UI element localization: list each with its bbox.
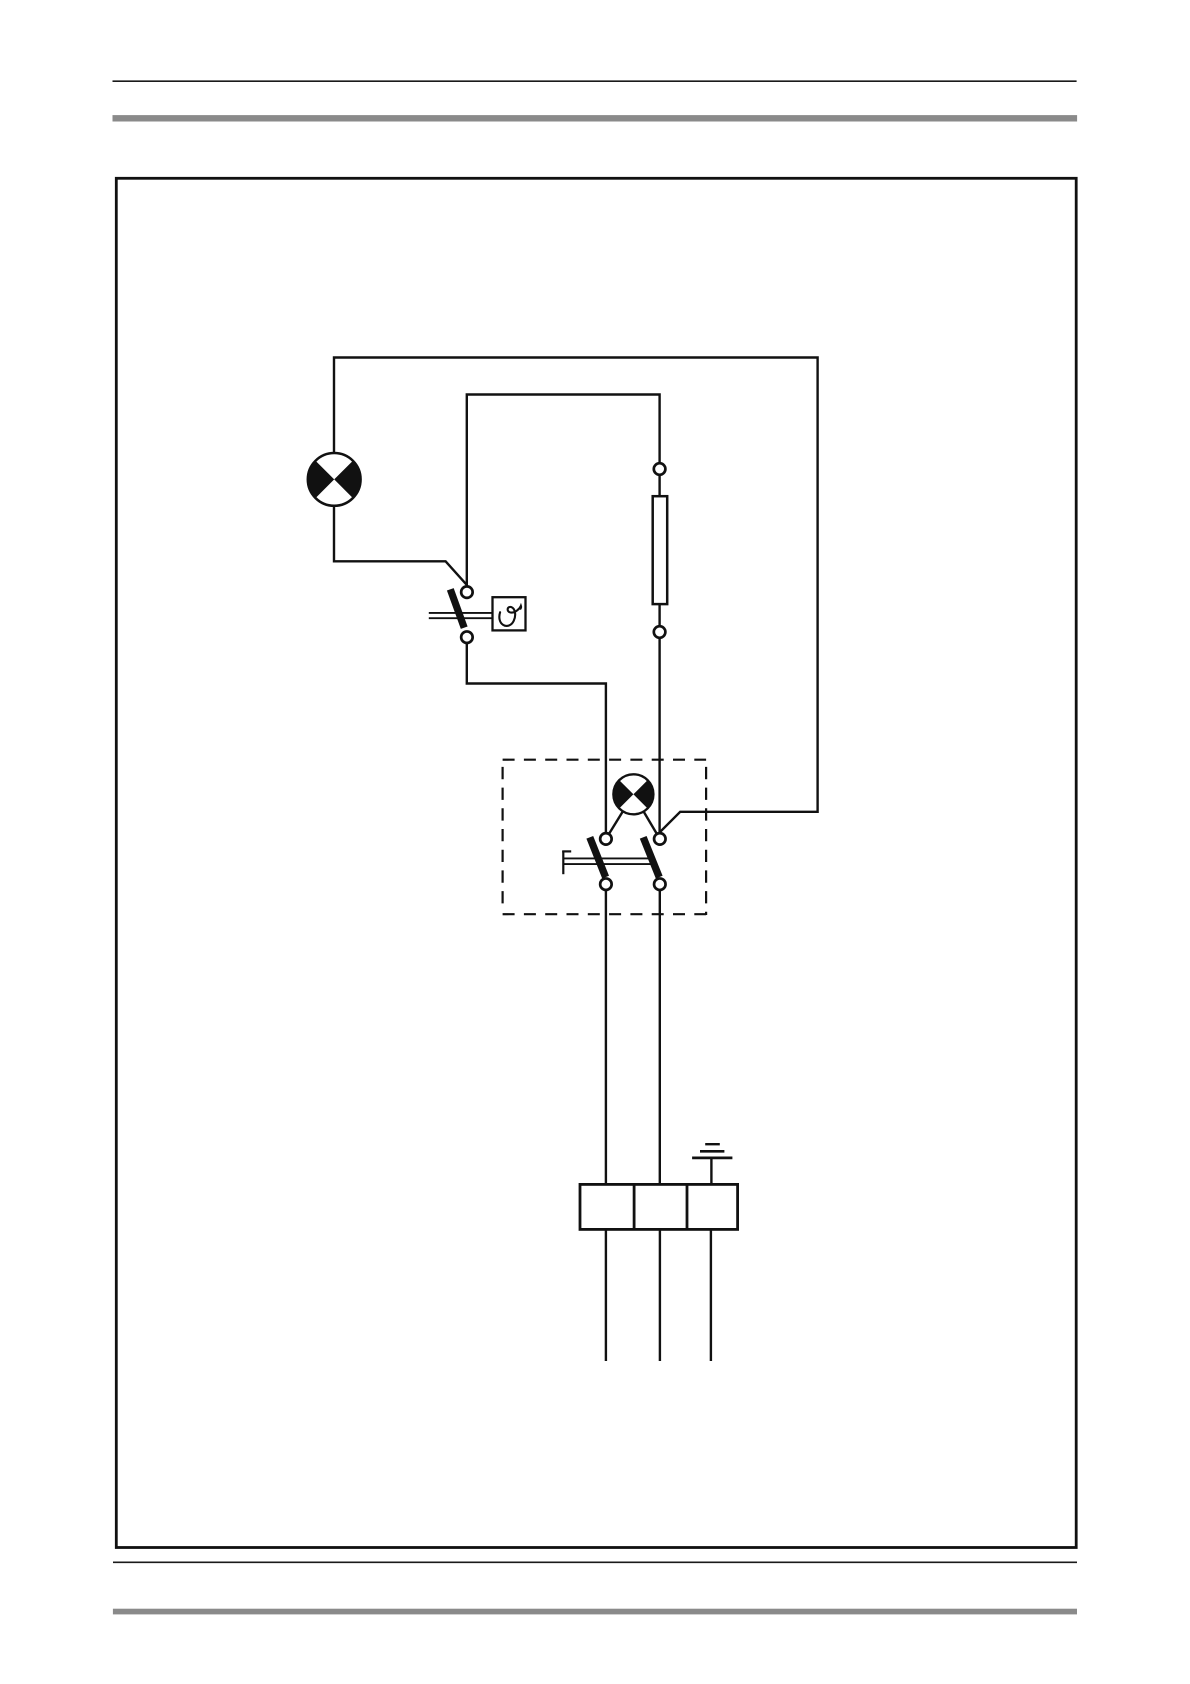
dashed enclosure around lamp E2 and switch S2 [503,759,706,761]
top gray divider [113,115,1078,121]
top rule [113,80,1077,82]
bottom gray divider [113,1609,1077,1615]
diagram frame [116,178,1076,1547]
switch S2 upper left contact [600,833,612,845]
lamp E2 right filled sector [633,780,653,808]
supply wire PE below terminal block [710,1229,712,1361]
fuse F1 lower terminal circle [654,626,666,638]
terminal block divider 2 [686,1184,689,1229]
lamp E2 left filled sector [613,780,633,808]
wire: lamp E1 bottom to thermostat switch S1 upper contact [334,507,467,593]
terminal block X1 [580,1184,738,1229]
switch S2 actuator rails [563,857,652,859]
lamp E1 left filled sector [308,461,334,498]
switch S2 lower right contact [654,878,666,890]
bottom rule [113,1561,1077,1563]
lamp E1 right filled sector [334,461,360,498]
thermostat box with theta symbol [493,597,526,630]
wire: inner bus from S1 upper contact up, across, and down through fuse F1 to S2 right contact [467,395,660,839]
fuse F1 body [653,496,668,604]
switch S2 left arm (thick bar) [590,837,606,877]
switch S1 lower contact [461,631,473,643]
supply wire N below terminal block [659,1229,661,1361]
switch S2 right arm (thick bar) [643,837,659,877]
wire: S1 lower contact down and right to S2 left upper contact [467,637,606,839]
wire: lamp E2 left lead diagonal [606,794,634,839]
switch S2 upper right contact [654,833,666,845]
theta (temperature) symbol [499,606,521,626]
switch S1 upper contact [461,586,473,598]
wire: S2 right lower contact down to terminal block [659,884,661,1184]
wire: lamp E2 right lead diagonal [633,794,659,839]
lamp E2 body [613,774,653,814]
fuse F1 upper terminal circle [654,463,666,475]
terminal block divider 1 [633,1184,636,1229]
lamp E1 body [308,453,361,506]
switch S2 lower left contact [600,878,612,890]
switch S1 arm (thick bar) [450,589,464,627]
switch S1 actuator rails [429,612,493,614]
earth/ground lead [710,1158,712,1184]
earth/ground symbol [692,1157,732,1160]
supply wire L below terminal block [605,1229,607,1361]
wire: S2 left lower contact down to terminal block [605,884,607,1184]
switch S2 actuator handle [562,851,564,874]
wire: top bus from lamp E1 over the top and down the right side into switch unit [334,358,818,839]
